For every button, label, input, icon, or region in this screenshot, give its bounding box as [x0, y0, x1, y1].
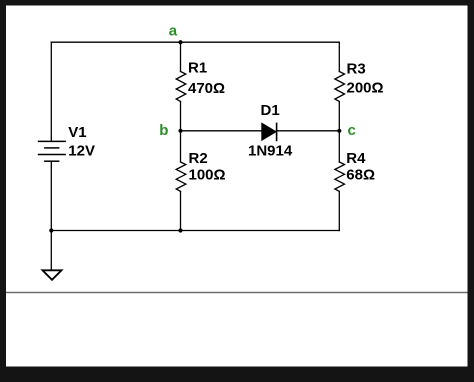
svg-text:200Ω: 200Ω — [347, 80, 384, 97]
resistor R3 — [335, 72, 345, 102]
svg-text:a: a — [169, 23, 178, 40]
svg-text:D1: D1 — [261, 102, 280, 119]
diode D1 — [262, 123, 277, 142]
svg-text:b: b — [159, 122, 168, 139]
junction dot R2 bottom — [178, 228, 182, 232]
wire R3 to c — [338, 102, 340, 163]
ground — [43, 270, 62, 280]
svg-text:R1: R1 — [188, 60, 207, 77]
svg-text:R2: R2 — [189, 150, 208, 167]
wire left rail lower — [50, 161, 52, 230]
wire top a — [51, 41, 339, 43]
wire R4 to bottom — [338, 191, 340, 230]
svg-text:1N914: 1N914 — [248, 142, 293, 159]
frame bar left — [0, 0, 6, 382]
svg-text:12V: 12V — [68, 142, 95, 159]
wire right rail a to R3 — [338, 42, 340, 71]
svg-text:R4: R4 — [346, 150, 366, 167]
svg-text:c: c — [348, 122, 356, 139]
divider gray line — [6, 292, 468, 294]
wire mid rail a to R1 — [180, 42, 182, 71]
node C junction dot — [337, 129, 341, 133]
svg-text:R3: R3 — [347, 61, 366, 78]
svg-text:470Ω: 470Ω — [188, 80, 225, 97]
battery V1 — [38, 141, 66, 161]
node A junction dot — [178, 40, 182, 44]
frame bar right — [468, 0, 474, 382]
wire R2 to bottom — [180, 191, 182, 230]
resistor R2 — [176, 162, 186, 191]
svg-text:V1: V1 — [68, 124, 86, 141]
wire ground stem — [50, 231, 52, 271]
wire diode to c — [276, 130, 339, 132]
junction dot ground — [49, 228, 53, 232]
node B junction dot — [178, 129, 182, 133]
wire R1 to b — [180, 102, 182, 163]
resistor R1 — [176, 72, 186, 102]
wire b to diode — [181, 130, 262, 132]
wire left rail upper — [50, 42, 52, 141]
frame bar top — [0, 0, 474, 6]
wire bottom — [51, 230, 339, 232]
svg-text:68Ω: 68Ω — [346, 167, 375, 184]
frame bar bottom — [0, 367, 474, 382]
svg-text:100Ω: 100Ω — [189, 167, 226, 184]
resistor R4 — [335, 162, 345, 191]
